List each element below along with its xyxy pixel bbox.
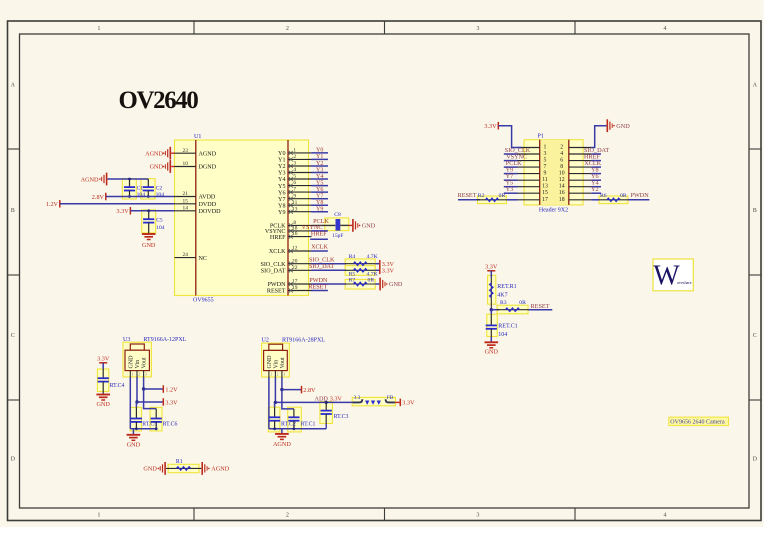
capacitor RT.C4 box	[97, 369, 108, 392]
capacitor C5 104	[148, 211, 150, 219]
svg-text:OV2640: OV2640	[119, 87, 199, 114]
resistor R6	[599, 199, 628, 201]
svg-text:13: 13	[292, 206, 298, 212]
svg-text:Vin: Vin	[273, 360, 279, 369]
svg-text:6: 6	[293, 180, 296, 186]
svg-text:Y6: Y6	[316, 187, 323, 193]
wire 1.2V to pin 15	[60, 203, 175, 205]
capacitor RT.C2 box	[268, 407, 280, 432]
U1 pin 1 Y0	[288, 152, 312, 154]
svg-text:Y3: Y3	[316, 167, 323, 173]
wire net Y4	[312, 178, 329, 180]
svg-text:5: 5	[544, 158, 547, 164]
node junction U2 Vin	[274, 401, 277, 404]
node junction U3 Vout 1.2V	[142, 387, 145, 390]
wire U3 GND pin down	[129, 377, 131, 429]
wire net SIO_CLK to P1	[504, 153, 518, 155]
U1 pin 16 HREF	[288, 236, 312, 238]
wire junction to R3	[491, 309, 499, 311]
svg-text:2: 2	[286, 26, 289, 32]
P1 pin 9 left	[518, 173, 540, 175]
svg-text:DVDD: DVDD	[199, 202, 217, 208]
U1 pin 13 Y9	[288, 211, 312, 213]
board name label OV9656 2640 Camera	[669, 417, 729, 426]
svg-text:GND: GND	[389, 281, 403, 288]
P1 pin 18 right	[569, 199, 592, 201]
U2 pins 1 2 3	[268, 370, 270, 377]
resistor R2	[478, 199, 507, 201]
capacitor RT.C1	[288, 416, 299, 418]
capacitor RT.C2	[269, 416, 280, 418]
svg-text:OV9656 2640 Camera: OV9656 2640 Camera	[670, 420, 725, 426]
wire net Y3	[312, 172, 329, 174]
wire net Y4 from P1	[591, 186, 601, 188]
Waveshare logo box	[653, 259, 693, 291]
svg-text:4: 4	[664, 513, 667, 519]
svg-text:Y1: Y1	[278, 158, 285, 164]
svg-text:C2: C2	[156, 186, 163, 192]
svg-text:7: 7	[293, 187, 296, 193]
svg-text:Header 9X2: Header 9X2	[539, 208, 568, 214]
wire net Y8	[312, 204, 329, 206]
svg-text:Y6: Y6	[278, 190, 285, 196]
U1 pin 7 Y6	[288, 191, 312, 193]
svg-text:AVDD: AVDD	[199, 195, 216, 201]
wire 2.8V to pin 21	[106, 196, 175, 198]
op-amp U1 OV9655 sensor IC body	[175, 140, 309, 296]
svg-text:SIO_DAT: SIO_DAT	[309, 263, 334, 270]
resistor R7	[345, 283, 375, 285]
svg-text:14: 14	[183, 205, 189, 211]
svg-text:104: 104	[498, 332, 507, 338]
svg-text:Y4: Y4	[316, 174, 323, 180]
P1 pin 14 right	[569, 186, 592, 188]
wire net Y1	[312, 158, 329, 160]
svg-text:Y8: Y8	[278, 203, 285, 209]
capacitor RT.C5	[131, 418, 142, 420]
ground below U3	[127, 434, 141, 436]
svg-text:Y1: Y1	[316, 154, 323, 160]
wire U3 Vin down	[136, 377, 138, 402]
resistor R2 0R box	[478, 196, 507, 204]
resistor R4	[345, 263, 375, 265]
svg-text:XCLK: XCLK	[269, 249, 286, 255]
svg-text:RESET: RESET	[531, 303, 550, 310]
svg-text:AGND: AGND	[211, 466, 229, 473]
P1 pin 15 left	[518, 192, 540, 194]
wire HREF	[310, 238, 328, 240]
wire R2 to P1 pin 17	[506, 199, 517, 201]
svg-text:Y3: Y3	[506, 186, 514, 193]
regulator U2 body	[262, 343, 290, 377]
svg-text:23: 23	[183, 148, 189, 154]
P1 pin 10 right	[569, 173, 592, 175]
connector P1 Header 9X2 body	[524, 140, 583, 205]
wire net Y8 from P1	[591, 173, 601, 175]
node junction U2 Vout 2.8V	[280, 388, 283, 391]
wire Vout to RT.C6	[144, 389, 157, 409]
wire ADD 3.3V rail	[275, 401, 354, 403]
wire U2 Vin down	[274, 377, 276, 402]
wire 1.2V to bar at U3	[144, 388, 164, 390]
resistor RET.R1 4K7 box	[488, 275, 496, 304]
capacitor C2 box	[141, 179, 155, 199]
svg-text:HREF: HREF	[270, 235, 286, 241]
svg-text:12: 12	[292, 246, 298, 252]
svg-text:R4: R4	[349, 254, 356, 260]
capacitor RT.C6 box	[150, 407, 162, 431]
svg-text:AGND: AGND	[199, 151, 217, 157]
U1 pin 18 VSYNC	[288, 230, 312, 232]
U1 pin 2 Y1	[288, 158, 312, 160]
wire RESET to R2	[458, 199, 480, 201]
P1 pin 7 left	[518, 166, 540, 168]
capacitor C5 box	[142, 210, 156, 233]
svg-text:RESET: RESET	[267, 289, 286, 295]
svg-text:XCLK: XCLK	[311, 244, 328, 251]
svg-text:18: 18	[559, 197, 565, 203]
ground below RET.C1	[485, 341, 499, 343]
capacitor C8 box	[325, 218, 349, 231]
svg-text:NC: NC	[199, 256, 207, 262]
wire AGND rail	[108, 178, 149, 180]
svg-text:C: C	[753, 333, 757, 339]
svg-text:Y0: Y0	[278, 151, 285, 157]
power 3.3V at R4	[379, 260, 381, 268]
capacitor RET.C1 104	[486, 324, 497, 326]
wire FB to 3.3V	[395, 401, 400, 403]
power ground GND at P1	[606, 119, 608, 132]
svg-text:GND: GND	[96, 401, 110, 408]
power 3.3V at U3	[162, 398, 164, 406]
wire 3.3V to pin 1	[498, 126, 521, 148]
svg-text:Y9: Y9	[316, 207, 323, 213]
node junction U3 Vin 3.3V	[135, 400, 138, 403]
resistor R6 0R box	[599, 196, 628, 204]
svg-text:B: B	[11, 208, 15, 214]
ground below C5	[142, 233, 156, 235]
capacitor RT.C6	[151, 418, 162, 420]
wire Vin to RT.C5	[135, 402, 137, 407]
wire net Y5	[312, 185, 329, 187]
svg-text:0R: 0R	[620, 193, 627, 199]
svg-text:14: 14	[559, 184, 565, 190]
power ground GND right of R7	[379, 278, 381, 291]
svg-text:15pF: 15pF	[332, 233, 343, 239]
P1 pin 4 right	[569, 153, 592, 155]
power 3.3V right of FB	[399, 399, 401, 407]
wire Vout to RT.C1	[282, 390, 294, 409]
wire U3 Vout down	[143, 377, 145, 389]
svg-text:3.3V: 3.3V	[116, 208, 129, 215]
svg-text:5: 5	[293, 174, 296, 180]
node junction RT.C3	[325, 401, 328, 404]
U1 pin 21 AVDD	[175, 196, 196, 198]
power AGND right of R1	[201, 462, 203, 475]
wire PWDN	[312, 283, 347, 285]
svg-text:SIO_DAT: SIO_DAT	[261, 269, 286, 275]
svg-text:DOVDD: DOVDD	[199, 209, 222, 215]
capacitor C1 104	[129, 179, 131, 187]
svg-text:Vout: Vout	[280, 357, 286, 369]
svg-text:D: D	[753, 457, 757, 463]
svg-text:RT.C4: RT.C4	[110, 383, 125, 389]
svg-text:3: 3	[145, 373, 147, 377]
wire R6 to PWDN	[628, 199, 650, 201]
svg-text:Y9: Y9	[278, 210, 285, 216]
svg-text:11: 11	[292, 200, 297, 206]
svg-text:RT.C3: RT.C3	[334, 414, 349, 420]
svg-text:15: 15	[183, 198, 189, 204]
wire net HREF from P1	[591, 160, 601, 162]
svg-text:C5: C5	[156, 218, 163, 224]
svg-text:U1: U1	[194, 134, 201, 140]
U1 pin 11 Y8	[288, 204, 312, 206]
wire R4 to 3.3V	[375, 263, 380, 265]
svg-text:Y7: Y7	[278, 197, 285, 203]
svg-text:104: 104	[156, 192, 165, 198]
svg-text:2: 2	[560, 145, 563, 151]
svg-text:RET.C1: RET.C1	[498, 324, 517, 330]
resistor R4 4.7K box	[345, 259, 375, 269]
wire U2 Vout down	[281, 377, 283, 390]
resistor R7 0R box	[345, 279, 375, 289]
svg-text:OV9655: OV9655	[193, 298, 214, 304]
svg-text:aveshare: aveshare	[677, 280, 692, 285]
svg-text:RT.C6: RT.C6	[163, 422, 178, 428]
svg-text:AGND: AGND	[81, 177, 99, 184]
svg-text:SIO_CLK: SIO_CLK	[260, 262, 286, 268]
svg-text:8: 8	[560, 164, 563, 170]
svg-text:1: 1	[98, 26, 101, 32]
svg-text:3: 3	[544, 151, 547, 157]
svg-text:R1: R1	[176, 459, 183, 465]
svg-text:Y5: Y5	[316, 180, 323, 186]
power 3.3V at R5	[379, 267, 381, 275]
svg-text:104: 104	[156, 225, 165, 231]
ferrite bead FB box	[352, 397, 395, 405]
wire R3 to RESET	[528, 309, 552, 311]
wire net Y9	[312, 211, 329, 213]
svg-text:R6: R6	[600, 193, 607, 199]
resistor R3 0R box	[497, 305, 528, 314]
wire C8 to GND	[340, 224, 348, 226]
power ground GND right of C8	[352, 219, 354, 232]
wire U2 ground rail	[269, 428, 326, 430]
resistor RET.R1	[490, 278, 492, 310]
svg-text:GND: GND	[128, 355, 134, 369]
capacitor RT.C4	[98, 377, 109, 379]
svg-text:1: 1	[293, 148, 296, 154]
wire 3.3V to RET.R1	[490, 271, 492, 278]
svg-text:Vin: Vin	[135, 360, 141, 369]
svg-text:3: 3	[477, 26, 480, 32]
resistor R3	[497, 309, 528, 311]
ground below RT.C4	[96, 394, 110, 396]
U1 pin 6 Y5	[288, 185, 312, 187]
regulator U3 body	[123, 342, 151, 377]
svg-text:RESET: RESET	[458, 192, 477, 199]
wire net Y2	[312, 165, 329, 167]
svg-text:GND: GND	[127, 441, 141, 448]
svg-text:3: 3	[283, 373, 285, 377]
svg-text:3.3V: 3.3V	[485, 263, 498, 270]
wire net Y2 from P1	[591, 192, 601, 194]
svg-text:3.3: 3.3	[354, 395, 361, 401]
U1 pin 19 RESET	[288, 290, 312, 292]
svg-text:Y0: Y0	[316, 148, 323, 154]
svg-text:FB: FB	[387, 395, 394, 401]
wire U3 ground rail	[130, 428, 156, 430]
svg-text:Y5: Y5	[278, 184, 285, 190]
svg-text:4: 4	[664, 26, 667, 32]
svg-text:GND: GND	[267, 355, 273, 369]
svg-text:C1: C1	[137, 186, 144, 192]
svg-text:RT.C2: RT.C2	[281, 422, 296, 428]
svg-text:9: 9	[293, 193, 296, 199]
svg-text:Y3: Y3	[278, 171, 285, 177]
svg-text:2: 2	[277, 373, 279, 377]
svg-text:2.8V: 2.8V	[303, 387, 316, 394]
U1 pin 5 Y4	[288, 178, 312, 180]
svg-text:3.3V: 3.3V	[402, 400, 415, 407]
svg-text:0R: 0R	[519, 300, 526, 306]
wire SIO_CLK	[312, 263, 347, 265]
svg-text:1.2V: 1.2V	[46, 201, 59, 208]
svg-text:4K7: 4K7	[497, 293, 507, 299]
svg-text:3.3V: 3.3V	[382, 268, 395, 275]
svg-text:0R: 0R	[499, 193, 506, 199]
wire rail to AGND	[281, 429, 283, 434]
svg-text:16: 16	[292, 231, 298, 237]
wire net Y6 from P1	[591, 179, 601, 181]
wire GND from P1 pin 2	[591, 126, 606, 148]
wire net PCLK to P1	[504, 166, 518, 168]
wire net VSYNC to P1	[504, 160, 518, 162]
P1 pin 13 left	[518, 186, 540, 188]
svg-text:Y7: Y7	[316, 194, 323, 200]
capacitor RT.C1 box	[288, 407, 302, 432]
svg-text:6: 6	[560, 158, 563, 164]
P1 pin 8 right	[569, 166, 592, 168]
node junction RESET	[490, 308, 493, 311]
svg-text:AGND: AGND	[273, 441, 291, 448]
P1 pin 17 left	[518, 199, 540, 201]
power 1.2V at U3	[162, 385, 164, 393]
wire 2.8V to bar	[282, 389, 302, 391]
P1 pin 11 left	[518, 179, 540, 181]
resistor R5	[345, 269, 375, 271]
svg-text:GND: GND	[150, 164, 164, 171]
U1 pin 17 PWDN	[288, 283, 312, 285]
svg-text:24: 24	[183, 252, 189, 258]
wire net Y7	[312, 198, 329, 200]
wire R7 to GND	[375, 283, 379, 285]
capacitor C1 box	[122, 179, 136, 199]
svg-text:Y4: Y4	[278, 177, 285, 183]
svg-text:0R: 0R	[368, 278, 375, 284]
wire net Y5 to P1	[504, 186, 518, 188]
P1 pin 5 left	[518, 160, 540, 162]
svg-text:Vout: Vout	[142, 357, 148, 369]
svg-text:C8: C8	[334, 212, 341, 218]
U1 pin 22 SIO_DAT	[288, 269, 312, 271]
ferrite bead FB	[353, 399, 362, 402]
wire VSYNC	[312, 230, 328, 232]
U1 pin 20 SIO_CLK	[288, 263, 312, 265]
wire net Y7 to P1	[504, 179, 518, 181]
svg-text:3.3V: 3.3V	[330, 395, 343, 402]
svg-text:GND: GND	[485, 349, 499, 356]
svg-text:22: 22	[292, 265, 298, 271]
wire U2 GND pin down	[268, 377, 270, 429]
svg-text:RT.C1: RT.C1	[301, 422, 316, 428]
svg-text:11: 11	[542, 177, 548, 183]
svg-text:4.7K: 4.7K	[367, 254, 379, 260]
svg-text:2: 2	[293, 154, 296, 160]
capacitor C2 104	[147, 179, 149, 187]
svg-text:R7: R7	[349, 278, 356, 284]
svg-text:20: 20	[292, 258, 298, 264]
wire net XCLK from P1	[591, 166, 601, 168]
capacitor RT.C3	[325, 402, 327, 410]
svg-text:15: 15	[542, 190, 548, 196]
svg-text:RT.C5: RT.C5	[142, 422, 157, 428]
svg-text:HREF: HREF	[311, 230, 327, 237]
resistor R5 4.7K box	[345, 266, 375, 276]
U1 pin 10 DGND	[175, 166, 196, 168]
U1 pin 8 PCLK	[288, 224, 312, 226]
svg-text:17: 17	[542, 197, 548, 203]
capacitor C8 15pF	[336, 219, 341, 231]
U3 pins 1 2 3	[129, 370, 131, 377]
svg-text:W: W	[653, 261, 680, 292]
svg-text:C: C	[11, 333, 15, 339]
svg-text:R3: R3	[500, 300, 507, 306]
wire net Y6	[312, 191, 329, 193]
svg-text:12: 12	[559, 177, 565, 183]
U1 pin 9 Y7	[288, 198, 312, 200]
svg-text:10: 10	[183, 161, 189, 167]
P1 pin 6 right	[569, 160, 592, 162]
svg-text:Y2: Y2	[316, 161, 323, 167]
svg-text:B: B	[753, 208, 757, 214]
wire net Y9 to P1	[504, 173, 518, 175]
svg-text:3: 3	[293, 161, 296, 167]
svg-text:3.3V: 3.3V	[484, 123, 497, 130]
svg-text:GND: GND	[142, 242, 156, 249]
svg-text:2.8V: 2.8V	[92, 194, 105, 201]
capacitor RET.C1 box	[487, 314, 498, 336]
resistor R1	[166, 467, 201, 469]
capacitor RT.C5 box	[130, 407, 141, 431]
wire net Y0	[312, 152, 329, 154]
svg-text:1: 1	[98, 513, 101, 519]
svg-text:3.3V: 3.3V	[165, 399, 178, 406]
svg-text:1.2V: 1.2V	[165, 386, 178, 393]
wire 3.3V to bar at U3	[137, 401, 163, 403]
svg-text:D: D	[11, 457, 15, 463]
svg-text:PWDN: PWDN	[268, 282, 287, 288]
U1 pin 12 XCLK	[288, 250, 312, 252]
svg-text:1: 1	[132, 373, 134, 377]
svg-text:AGND: AGND	[145, 150, 163, 157]
wire RESET stub	[312, 290, 328, 292]
svg-text:GND: GND	[362, 223, 376, 230]
svg-text:R2: R2	[478, 193, 485, 199]
svg-text:Y2: Y2	[591, 186, 599, 193]
wire rail to GND	[132, 429, 134, 435]
